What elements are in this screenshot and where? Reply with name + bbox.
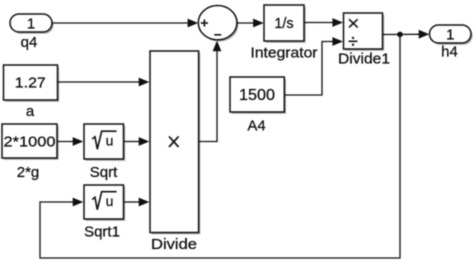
svg-text:Divide1: Divide1 [338, 51, 390, 68]
integrator block Integrator [264, 5, 306, 43]
sum block Sum [198, 6, 238, 42]
junction node [397, 32, 403, 38]
wire Sum to Integrator [237, 19, 264, 28]
constant 2*g (2*1000) [2, 124, 59, 160]
svg-text:u: u [106, 193, 114, 209]
svg-text:Divide: Divide [151, 236, 197, 253]
svg-text:1/s: 1/s [274, 16, 293, 32]
wire A4 to Divide1 input 2 [285, 37, 344, 95]
constant A4 (1500) [230, 77, 286, 114]
wire Divide1 to h4 [383, 30, 430, 39]
wire 2*g to Sqrt [57, 137, 83, 146]
svg-text:2*g: 2*g [17, 164, 40, 181]
svg-text:a: a [26, 103, 35, 120]
wire Integrator to Divide1 input 1 [304, 18, 343, 27]
wire Sqrt to Divide input 2 [124, 137, 150, 146]
svg-text:1: 1 [446, 27, 454, 44]
svg-text:1500: 1500 [239, 87, 275, 104]
wire q4 to Sum plus input [52, 19, 198, 28]
wire Divide to Sum minus input [199, 41, 222, 142]
product block Divide [150, 51, 200, 234]
wire a to Divide input 1 [58, 78, 150, 87]
inport q4 [10, 14, 54, 34]
svg-text:2*1000: 2*1000 [4, 133, 56, 150]
svg-text:Sqrt1: Sqrt1 [84, 224, 120, 241]
svg-text:h4: h4 [441, 44, 458, 61]
sqrt block Sqrt1 [84, 185, 125, 221]
wire Sqrt1 to Divide input 3 [124, 198, 150, 207]
svg-text:Sqrt: Sqrt [90, 164, 118, 181]
constant a (1.27) [4, 65, 60, 102]
svg-text:A4: A4 [247, 118, 265, 135]
svg-text:q4: q4 [21, 34, 38, 51]
outport h4 [430, 25, 473, 45]
svg-text:1: 1 [27, 16, 35, 33]
feedback wire junction to Sqrt1 [40, 34, 400, 258]
svg-text:Integrator: Integrator [251, 45, 318, 62]
svg-text:1.27: 1.27 [15, 75, 46, 92]
sqrt block Sqrt [84, 124, 125, 161]
svg-text:u: u [106, 133, 114, 149]
divide block Divide1 [344, 13, 385, 51]
